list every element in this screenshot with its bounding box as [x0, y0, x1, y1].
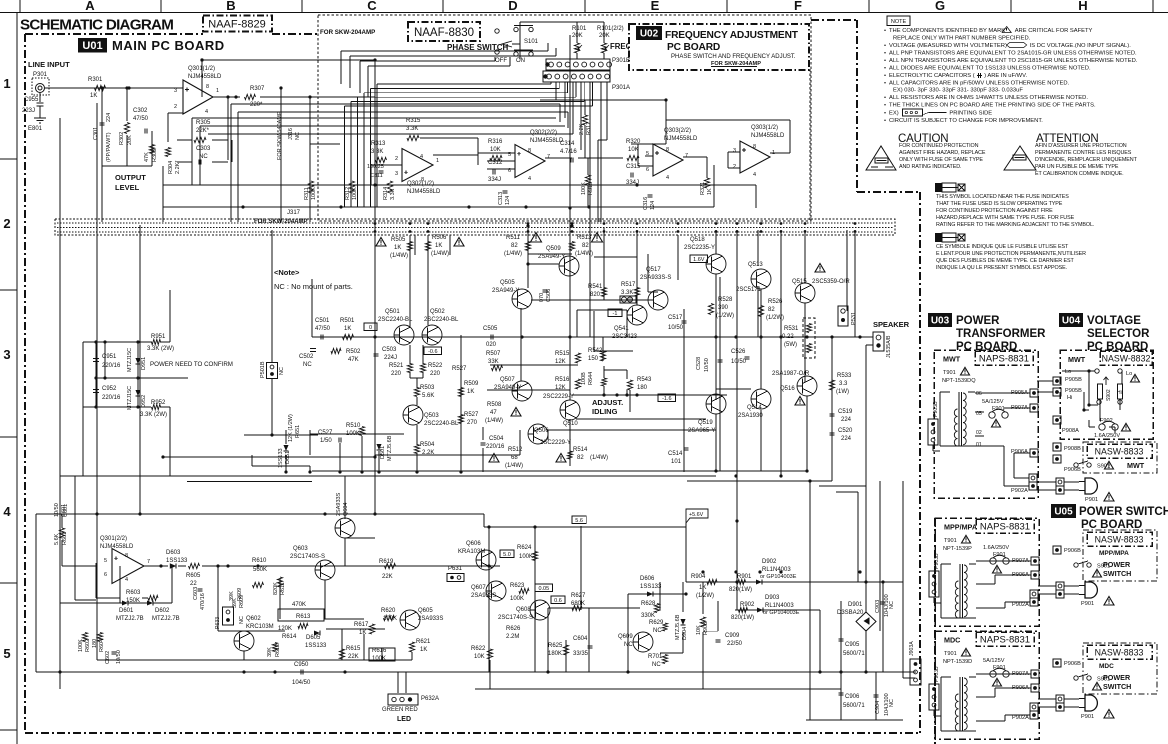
- svg-text:MTZJ2.7B: MTZJ2.7B: [152, 616, 180, 622]
- svg-text:1: 1: [216, 88, 219, 94]
- svg-text:2SC2240-BL: 2SC2240-BL: [424, 317, 459, 323]
- svg-text:8: 8: [206, 84, 209, 90]
- svg-text:R517: R517: [621, 282, 636, 288]
- svg-text:224J: 224J: [384, 355, 397, 361]
- svg-text:4.7/16: 4.7/16: [560, 149, 577, 155]
- svg-text:224: 224: [106, 113, 112, 122]
- svg-text:0: 0: [369, 325, 372, 331]
- svg-text:R628: R628: [641, 601, 656, 607]
- svg-text:C303: C303: [196, 146, 211, 152]
- svg-text:223J: 223J: [22, 108, 35, 114]
- svg-text:RL1N4003: RL1N4003: [765, 603, 794, 609]
- svg-text:6: 6: [104, 572, 107, 578]
- svg-text:33/35: 33/35: [573, 651, 589, 657]
- svg-text:SWITCH: SWITCH: [1103, 569, 1131, 578]
- svg-text:THAT THE FUSE USED IS SLOW OPE: THAT THE FUSE USED IS SLOW OPERATING TYP…: [936, 201, 1063, 207]
- svg-text:C301: C301: [93, 127, 99, 140]
- svg-text:R304: R304: [168, 161, 174, 174]
- svg-text:U05: U05: [1054, 507, 1073, 518]
- svg-text:•: •: [884, 103, 886, 109]
- svg-text:ARE CRITICAL FOR SAFETY: ARE CRITICAL FOR SAFETY: [1015, 28, 1093, 34]
- svg-text:7: 7: [147, 559, 150, 565]
- svg-text:or GP104003E: or GP104003E: [763, 610, 800, 616]
- svg-text:Q301(1/2): Q301(1/2): [188, 66, 215, 72]
- svg-text:P632A: P632A: [421, 696, 439, 702]
- svg-text:2: 2: [733, 164, 736, 170]
- svg-text:10/50: 10/50: [731, 359, 747, 365]
- svg-text:8: 8: [528, 148, 531, 154]
- svg-text:C528: C528: [696, 357, 702, 370]
- svg-text:47: 47: [490, 410, 497, 416]
- svg-text:2SC2240-BL: 2SC2240-BL: [424, 421, 459, 427]
- svg-text:R516: R516: [555, 377, 570, 383]
- svg-text:Lo: Lo: [1065, 369, 1071, 375]
- svg-text:070: 070: [539, 293, 545, 302]
- svg-text:R302: R302: [119, 132, 125, 145]
- svg-text:REPLACE ONLY WITH PART NUMBER: REPLACE ONLY WITH PART NUMBER SPECIFIED.: [893, 36, 1031, 42]
- svg-text:POWER: POWER: [956, 315, 1000, 327]
- svg-text:MTZJ5.6B: MTZJ5.6B: [387, 435, 393, 461]
- svg-text:C504: C504: [489, 436, 504, 442]
- svg-text:Q608: Q608: [516, 607, 531, 613]
- svg-text:•: •: [884, 118, 886, 124]
- svg-text:THIS SYMBOL LOCATED NEAR THE F: THIS SYMBOL LOCATED NEAR THE FUSE INDICA…: [936, 194, 1069, 200]
- svg-text:100K: 100K: [510, 596, 524, 602]
- svg-text:•: •: [884, 81, 886, 87]
- svg-text:AFIN D'ASSURER UNE PROTECTION: AFIN D'ASSURER UNE PROTECTION: [1035, 143, 1127, 149]
- svg-text:C906: C906: [845, 694, 860, 700]
- svg-text:E801: E801: [28, 126, 43, 132]
- svg-text:ALL DIODES ARE EQUIVALENT TO 1: ALL DIODES ARE EQUIVALENT TO 1SS133 UNLE…: [889, 66, 1091, 72]
- svg-text:R503: R503: [420, 385, 435, 391]
- svg-text:R511: R511: [506, 235, 521, 241]
- svg-text:C604: C604: [573, 636, 588, 642]
- svg-text:R616: R616: [372, 648, 387, 654]
- svg-text:2SA933S-S: 2SA933S-S: [640, 275, 671, 281]
- svg-text:Q609: Q609: [618, 634, 633, 640]
- svg-text:NOTE: NOTE: [891, 19, 907, 25]
- svg-text:2SC2229-Y: 2SC2229-Y: [540, 440, 571, 446]
- svg-text:KRC103M: KRC103M: [246, 624, 274, 630]
- svg-text:C952: C952: [102, 386, 117, 392]
- svg-text:MPP/MPA: MPP/MPA: [944, 523, 977, 532]
- svg-text:R605: R605: [186, 573, 201, 579]
- svg-text:2: 2: [395, 156, 398, 162]
- svg-text:C519: C519: [838, 409, 853, 415]
- svg-text:Q518: Q518: [690, 237, 705, 243]
- svg-text:5600/71: 5600/71: [843, 651, 865, 657]
- svg-text:4: 4: [528, 176, 531, 182]
- svg-text:R614: R614: [282, 634, 297, 640]
- svg-text:MTZJ2.7B: MTZJ2.7B: [116, 616, 144, 622]
- svg-text:224: 224: [841, 417, 852, 423]
- svg-text:7: 7: [685, 153, 688, 159]
- svg-text:LINE INPUT: LINE INPUT: [28, 60, 70, 69]
- svg-text:R620: R620: [381, 608, 396, 614]
- svg-text:47/50: 47/50: [133, 116, 149, 122]
- svg-text:PC BOARD: PC BOARD: [1081, 519, 1142, 531]
- svg-text:POWER: POWER: [1103, 560, 1131, 569]
- svg-text:5: 5: [3, 646, 10, 661]
- svg-text:F: F: [794, 0, 802, 13]
- svg-text:P902A: P902A: [1012, 715, 1029, 721]
- svg-text:THE THICK LINES ON PC BOARD AR: THE THICK LINES ON PC BOARD ARE THE PRIN…: [889, 103, 1096, 109]
- svg-text:0.6: 0.6: [554, 598, 562, 604]
- svg-text:MAIN PC BOARD: MAIN PC BOARD: [112, 38, 225, 53]
- svg-text:NJM4558LD: NJM4558LD: [530, 138, 564, 144]
- svg-text:MDC: MDC: [1099, 663, 1114, 670]
- svg-text:330K: 330K: [641, 613, 655, 619]
- svg-text:Q301(2/2): Q301(2/2): [100, 536, 127, 542]
- svg-text:INDIQUE LA QU LE PRESENT SYMBO: INDIQUE LA QU LE PRESENT SYMBOL EST APPO…: [936, 265, 1067, 271]
- svg-text:NC: NC: [303, 362, 312, 368]
- svg-text:LEVEL: LEVEL: [115, 183, 140, 192]
- svg-text:R101: R101: [572, 26, 587, 32]
- svg-text:4: 4: [125, 577, 128, 583]
- svg-text:(1/4W): (1/4W): [431, 251, 449, 257]
- svg-text:2SC2229-Y: 2SC2229-Y: [543, 394, 574, 400]
- svg-text:5: 5: [104, 558, 107, 564]
- svg-text:22K: 22K: [382, 574, 393, 580]
- svg-text:R101(2/2): R101(2/2): [597, 26, 624, 32]
- svg-text:P901: P901: [1081, 601, 1094, 607]
- svg-text:R626: R626: [506, 626, 521, 632]
- svg-text:39K: 39K: [267, 647, 273, 657]
- svg-text:R527: R527: [452, 366, 467, 372]
- svg-text:47K: 47K: [144, 152, 150, 162]
- svg-text:VOLTAGE (MEASURED WITH VOLTMET: VOLTAGE (MEASURED WITH VOLTMETER): [889, 43, 1007, 49]
- svg-text:ON: ON: [516, 58, 525, 64]
- svg-text:R625: R625: [548, 643, 563, 649]
- svg-text:MWT: MWT: [1127, 461, 1145, 470]
- svg-text:C316: C316: [643, 197, 649, 210]
- svg-text:82: 82: [577, 455, 584, 461]
- svg-text:(5W): (5W): [784, 342, 797, 348]
- svg-text:HAZARD,REPLACE WITH SAME TYPE: HAZARD,REPLACE WITH SAME TYPE FUSE. FOR …: [936, 215, 1075, 221]
- svg-text:C909: C909: [725, 633, 740, 639]
- svg-text:68: 68: [511, 455, 518, 461]
- svg-text:FOR CONTINUED PROTECTION: FOR CONTINUED PROTECTION: [899, 143, 979, 149]
- svg-text:ET CALIBRATION COMME INDIQUE.: ET CALIBRATION COMME INDIQUE.: [1035, 171, 1124, 177]
- svg-text:FOR CONTINUED PROTECTION AGAIN: FOR CONTINUED PROTECTION AGAINST FIRE: [936, 208, 1053, 214]
- svg-text:1K: 1K: [420, 647, 427, 653]
- svg-text:560K: 560K: [253, 567, 267, 573]
- svg-text:R531: R531: [784, 326, 799, 332]
- svg-text:3.3: 3.3: [839, 381, 848, 387]
- svg-text:J317: J317: [287, 210, 301, 216]
- svg-text:R315: R315: [406, 118, 421, 124]
- svg-text:470K: 470K: [292, 602, 306, 608]
- svg-text:PC BOARD: PC BOARD: [667, 42, 720, 53]
- svg-text:22: 22: [190, 581, 197, 587]
- svg-text:NC: NC: [279, 367, 285, 375]
- svg-text:R521: R521: [389, 363, 404, 369]
- svg-text:1K: 1K: [707, 188, 713, 195]
- svg-text:C315: C315: [626, 164, 641, 170]
- svg-text:180: 180: [637, 385, 648, 391]
- svg-text:D606: D606: [640, 576, 655, 582]
- svg-text:C501: C501: [315, 318, 330, 324]
- svg-text:U03: U03: [931, 316, 950, 327]
- svg-text:R510: R510: [346, 423, 361, 429]
- svg-text:) ARE IN uF/WV.: ) ARE IN uF/WV.: [984, 73, 1027, 79]
- svg-text:3.3K: 3.3K: [621, 290, 633, 296]
- svg-text:2: 2: [174, 104, 177, 110]
- svg-text:101: 101: [671, 459, 682, 465]
- svg-text:F902: F902: [1100, 418, 1113, 424]
- svg-text:8: 8: [753, 144, 756, 150]
- svg-text:MPP/MPA: MPP/MPA: [1099, 550, 1129, 557]
- svg-text:LED: LED: [397, 716, 411, 723]
- svg-text:82: 82: [511, 243, 518, 249]
- svg-text:8: 8: [666, 147, 669, 153]
- svg-text:NASW-8832: NASW-8832: [1102, 354, 1151, 364]
- svg-text:1K: 1K: [394, 245, 401, 251]
- svg-text:Q303(2/2): Q303(2/2): [664, 128, 691, 134]
- svg-text:2SC2240-BL: 2SC2240-BL: [378, 317, 413, 323]
- svg-text:Q516: Q516: [780, 386, 795, 392]
- svg-text:<Note>: <Note>: [274, 268, 300, 277]
- svg-text:C514: C514: [668, 451, 683, 457]
- svg-text:3: 3: [174, 88, 177, 94]
- svg-text:33K: 33K: [488, 359, 499, 365]
- svg-text:R314: R314: [383, 187, 389, 200]
- svg-text:Q501: Q501: [385, 309, 400, 315]
- svg-text:C526: C526: [731, 349, 746, 355]
- svg-text:P905B: P905B: [1065, 377, 1082, 383]
- svg-text:CE SYMBOLE INDIQUE QUE LE FUSI: CE SYMBOLE INDIQUE QUE LE FUSIBLE UTLISE…: [936, 244, 1069, 250]
- svg-text:Q606: Q606: [466, 541, 481, 547]
- svg-text:100B: 100B: [581, 372, 587, 385]
- svg-text:•: •: [884, 43, 886, 49]
- svg-text:+5.6V: +5.6V: [689, 512, 704, 518]
- svg-text:SCHEMATIC DIAGRAM: SCHEMATIC DIAGRAM: [20, 17, 173, 34]
- svg-text:NASW-8833: NASW-8833: [1095, 535, 1144, 545]
- svg-text:FOR SKW-204AMP: FOR SKW-204AMP: [254, 219, 308, 225]
- svg-text:220/16: 220/16: [102, 363, 121, 369]
- svg-text:P906B: P906B: [1064, 548, 1081, 554]
- svg-text:1: 1: [3, 76, 10, 91]
- svg-text:QUE DES FUSIBLES DE MEME TYPE.: QUE DES FUSIBLES DE MEME TYPE. CE DARNIE…: [936, 258, 1074, 264]
- svg-text:R509: R509: [464, 381, 479, 387]
- svg-text:E LENT.POUR UNE PROTECTION PER: E LENT.POUR UNE PROTECTION PERMANENTE,N'…: [936, 251, 1086, 257]
- svg-text:Q302(2/2): Q302(2/2): [530, 130, 557, 136]
- svg-text:Q505: Q505: [500, 280, 515, 286]
- svg-text:334J: 334J: [488, 177, 501, 183]
- svg-text:R604: R604: [99, 639, 105, 652]
- svg-text:C502: C502: [299, 354, 314, 360]
- svg-text:D901: D901: [848, 602, 863, 608]
- svg-text:R515: R515: [555, 351, 570, 357]
- svg-text:NJM4558LD: NJM4558LD: [407, 189, 441, 195]
- svg-text:R311: R311: [304, 187, 310, 200]
- svg-text:3.3K: 3.3K: [390, 188, 396, 200]
- svg-text:R502: R502: [346, 349, 361, 355]
- svg-text:P908B: P908B: [1064, 446, 1081, 452]
- svg-text:ALL NPN TRANSISTORS ARE EQUIVA: ALL NPN TRANSISTORS ARE EQUIVALENT TO 2S…: [889, 58, 1138, 64]
- svg-text:10K: 10K: [490, 147, 501, 153]
- svg-text:-1.6: -1.6: [662, 396, 671, 402]
- svg-text:5A/125V: 5A/125V: [983, 658, 1005, 664]
- svg-text:3.3K (2W): 3.3K (2W): [140, 412, 167, 418]
- svg-text:RL1N4003: RL1N4003: [762, 567, 791, 573]
- svg-text:4: 4: [3, 504, 11, 519]
- svg-text:MTZJ15C: MTZJ15C: [127, 386, 133, 410]
- svg-text:H: H: [1078, 0, 1087, 13]
- svg-text:220/16: 220/16: [486, 444, 505, 450]
- svg-text:104/50: 104/50: [292, 680, 311, 686]
- svg-text:C527: C527: [318, 430, 333, 436]
- svg-text:47/50: 47/50: [315, 326, 331, 332]
- svg-text:U02: U02: [640, 29, 659, 40]
- svg-text:VOLTAGE: VOLTAGE: [1087, 315, 1141, 327]
- svg-text:P905B: P905B: [1065, 388, 1082, 394]
- svg-text:C601: C601: [63, 504, 69, 517]
- svg-text:10/50: 10/50: [704, 358, 710, 372]
- svg-text:224: 224: [841, 436, 852, 442]
- svg-text:Q302(1/2): Q302(1/2): [407, 181, 434, 187]
- svg-text:NC: NC: [653, 628, 662, 634]
- svg-text:NC: NC: [239, 616, 245, 624]
- svg-text:NJM4558LD: NJM4558LD: [100, 544, 134, 550]
- svg-text:R313: R313: [371, 141, 386, 147]
- svg-text:Hi: Hi: [1067, 395, 1072, 401]
- svg-text:Lo: Lo: [1126, 371, 1132, 377]
- svg-text:P633: P633: [215, 617, 221, 629]
- svg-text:C905: C905: [845, 642, 860, 648]
- svg-text:(1W): (1W): [836, 389, 849, 395]
- svg-text:(1/2W): (1/2W): [696, 593, 714, 599]
- svg-text:12K (1/2W): 12K (1/2W): [288, 414, 294, 442]
- svg-text:820: 820: [590, 292, 601, 298]
- svg-text:AGAINST FIRE HAZARD, REPLACE: AGAINST FIRE HAZARD, REPLACE: [899, 150, 986, 156]
- svg-text:P901: P901: [1085, 497, 1098, 503]
- svg-text:R621: R621: [416, 639, 431, 645]
- svg-text:G: G: [935, 0, 945, 13]
- svg-text:ALL CAPACITORS ARE IN pF/50WV: ALL CAPACITORS ARE IN pF/50WV UNLESS OTH…: [889, 81, 1070, 87]
- svg-text:THE COMPONENTS IDENTIFIED BY M: THE COMPONENTS IDENTIFIED BY MARK: [889, 28, 1005, 34]
- svg-text:or GP104003E: or GP104003E: [760, 574, 797, 580]
- svg-text:RATING REFER TO THE MARKING AD: RATING REFER TO THE MARKING ADJACENT TO …: [936, 222, 1094, 228]
- svg-text:MTZJ15C: MTZJ15C: [127, 348, 133, 372]
- svg-text:IS DC VOLTAGE.(NO INPUT SIGNAL: IS DC VOLTAGE.(NO INPUT SIGNAL).: [1030, 43, 1132, 49]
- svg-text:SPEAKER: SPEAKER: [873, 320, 910, 329]
- svg-text:R312: R312: [345, 187, 351, 200]
- svg-text:R904: R904: [691, 574, 706, 580]
- svg-text:R610: R610: [252, 558, 267, 564]
- svg-text:R507: R507: [486, 351, 501, 357]
- svg-text:5.0: 5.0: [503, 552, 511, 558]
- svg-text:3: 3: [395, 171, 398, 177]
- svg-text:FREQUENCY ADJUSTMENT: FREQUENCY ADJUSTMENT: [665, 30, 799, 41]
- svg-text:R505: R505: [391, 237, 406, 243]
- svg-text:NAPS-8831: NAPS-8831: [980, 635, 1030, 646]
- svg-text:JL535A/B: JL535A/B: [886, 335, 892, 358]
- svg-text:P301A: P301A: [612, 85, 630, 91]
- svg-text:R504: R504: [420, 442, 435, 448]
- svg-text:C314: C314: [560, 141, 575, 147]
- svg-text:1K: 1K: [467, 389, 474, 395]
- svg-text:220: 220: [430, 371, 441, 377]
- svg-text:1K: 1K: [435, 243, 442, 249]
- svg-text:Q602: Q602: [246, 616, 261, 622]
- svg-text:R316: R316: [488, 139, 503, 145]
- svg-text:NAPS-8831: NAPS-8831: [979, 354, 1029, 365]
- svg-text:•: •: [884, 28, 886, 34]
- svg-text:C517: C517: [668, 315, 683, 321]
- svg-text:R609: R609: [237, 588, 243, 601]
- svg-text:P908A: P908A: [1062, 428, 1079, 434]
- svg-text:(1/2W): (1/2W): [716, 313, 734, 319]
- svg-text:Q303(1/2): Q303(1/2): [751, 125, 778, 131]
- svg-text:020: 020: [486, 342, 497, 348]
- svg-text:5.6K: 5.6K: [54, 533, 60, 545]
- svg-text:Q514: Q514: [747, 405, 762, 411]
- svg-text:R533: R533: [837, 373, 852, 379]
- svg-text:10K: 10K: [628, 147, 639, 153]
- svg-text:1/50: 1/50: [320, 438, 332, 444]
- svg-text:150: 150: [588, 356, 599, 362]
- svg-text:06: 06: [976, 391, 982, 397]
- svg-text:Q605: Q605: [418, 608, 433, 614]
- svg-text:T901: T901: [943, 370, 956, 376]
- svg-text:C302: C302: [133, 108, 148, 114]
- svg-text:NAAF-8829: NAAF-8829: [208, 19, 265, 31]
- svg-text:P906B: P906B: [1064, 661, 1081, 667]
- svg-text:R301: R301: [88, 77, 103, 83]
- svg-text:R522: R522: [428, 363, 443, 369]
- svg-text:P903B: P903B: [933, 401, 939, 417]
- svg-text:P902A: P902A: [1011, 488, 1028, 494]
- svg-text:8: 8: [125, 553, 128, 559]
- svg-text:7: 7: [547, 154, 550, 160]
- svg-text:2SC1740S-S: 2SC1740S-S: [498, 615, 533, 621]
- svg-text:PRINTING SIDE: PRINTING SIDE: [949, 111, 992, 117]
- svg-text:POWER SWITCH: POWER SWITCH: [1079, 506, 1168, 518]
- svg-text:R317: R317: [586, 122, 592, 135]
- svg-text:MTZJ5.6B: MTZJ5.6B: [675, 614, 681, 640]
- svg-text:12K: 12K: [555, 359, 566, 365]
- svg-text:2SA1930: 2SA1930: [738, 413, 763, 419]
- svg-text:1.6A/250V: 1.6A/250V: [1094, 433, 1120, 439]
- svg-text:1K: 1K: [359, 630, 366, 636]
- svg-text:R319: R319: [588, 182, 594, 195]
- svg-text:PHASE SWITCH AND FREQUENCY ADJ: PHASE SWITCH AND FREQUENCY ADJUST.: [671, 54, 796, 60]
- svg-text:4: 4: [753, 172, 756, 178]
- svg-text:C951: C951: [102, 354, 117, 360]
- svg-text:2SC1740S-S: 2SC1740S-S: [290, 554, 325, 560]
- svg-text:Q507: Q507: [500, 377, 515, 383]
- svg-text:4: 4: [205, 109, 208, 115]
- svg-text:D603: D603: [166, 550, 181, 556]
- svg-text:C311: C311: [370, 173, 383, 179]
- svg-text:IDLING: IDLING: [592, 407, 618, 416]
- svg-text:124: 124: [650, 201, 656, 210]
- svg-text:220/16: 220/16: [102, 395, 121, 401]
- svg-text:22K: 22K: [348, 654, 359, 660]
- svg-text:P301B: P301B: [612, 58, 630, 64]
- svg-text:R617: R617: [354, 622, 369, 628]
- svg-text:Q503: Q503: [424, 413, 439, 419]
- svg-text:D501: D501: [380, 446, 386, 459]
- svg-text:P901: P901: [1081, 714, 1094, 720]
- svg-text:U04: U04: [1062, 316, 1081, 327]
- svg-text:1.6A/250V: 1.6A/250V: [983, 545, 1009, 551]
- svg-text:R601: R601: [62, 532, 68, 545]
- svg-text:ONLY WITH FUSE OF SAME TYPE: ONLY WITH FUSE OF SAME TYPE: [899, 157, 983, 163]
- svg-text:GREEN RED: GREEN RED: [382, 707, 418, 713]
- svg-text:ADJUST.: ADJUST.: [592, 398, 623, 407]
